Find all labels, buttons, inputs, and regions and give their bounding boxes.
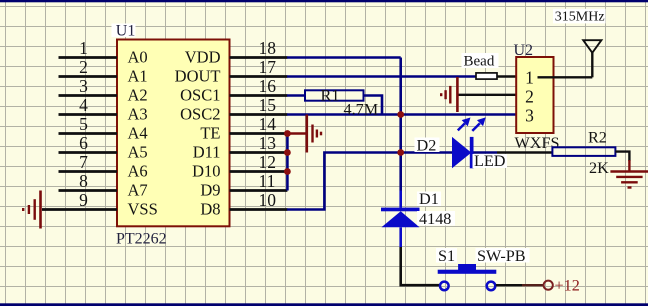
- 4148 label background: [417, 211, 455, 226]
- wire row 16 to R1: [287, 94, 305, 97]
- antenna triangle: [583, 40, 601, 53]
- svg-text:2: 2: [79, 57, 88, 77]
- svg-text:R2: R2: [588, 128, 607, 146]
- svg-text:11: 11: [259, 171, 276, 191]
- U1 right pin 16 wire: [230, 94, 288, 97]
- U1 right pin 13 wire: [230, 151, 288, 154]
- diode D1 cathode bar: [381, 208, 420, 212]
- U1 left pin 6 wire: [59, 151, 118, 154]
- top sheet border: [0, 0, 648, 2]
- svg-text:18: 18: [259, 38, 277, 58]
- diode D1 bottom pin: [399, 227, 402, 247]
- wire VDD row 18 to vertical bus: [287, 56, 401, 59]
- svg-text:10: 10: [259, 190, 277, 210]
- switch S1 button nub: [458, 264, 476, 270]
- ground G2 at TE net: [307, 115, 321, 153]
- svg-text:VSS: VSS: [128, 200, 158, 219]
- IC U2 body: [516, 57, 553, 133]
- +12 supply port circle: [544, 281, 553, 290]
- svg-text:D1: D1: [419, 190, 439, 208]
- svg-text:5: 5: [79, 114, 88, 134]
- svg-text:SW-PB: SW-PB: [477, 247, 526, 265]
- switch S1 right contact circle: [487, 282, 496, 291]
- U1 right pin 17 wire: [230, 75, 288, 78]
- diode D1 triangle: [382, 211, 420, 227]
- svg-text:13: 13: [259, 133, 277, 153]
- svg-text:4.7M: 4.7M: [344, 100, 379, 118]
- svg-text:PT2262: PT2262: [116, 231, 167, 248]
- svg-text:S1: S1: [438, 247, 455, 265]
- junction dot (287.4,152.5): [284, 149, 291, 156]
- bottom sheet border: [0, 303, 648, 306]
- svg-text:1: 1: [525, 68, 534, 88]
- switch S1 left contact circle: [440, 282, 449, 291]
- svg-text:7: 7: [79, 152, 88, 172]
- U1 designator white backing: [112, 24, 136, 38]
- U1 right pin 14 wire: [230, 132, 288, 135]
- svg-text:2K: 2K: [589, 159, 609, 177]
- antenna mast: [591, 52, 593, 77]
- svg-text:2: 2: [525, 87, 534, 107]
- svg-text:D8: D8: [200, 200, 220, 219]
- wire R1 right to row 15: [364, 96, 383, 115]
- svg-text:12: 12: [259, 152, 277, 172]
- diode D1 top pin: [399, 191, 402, 208]
- switch S1 bar: [438, 270, 497, 274]
- LED D2 triangle: [452, 137, 471, 168]
- svg-text:A0: A0: [128, 48, 148, 67]
- wire maroon stub to ground G2: [287, 132, 306, 134]
- svg-text:R1: R1: [321, 87, 340, 105]
- svg-text:A5: A5: [128, 143, 148, 162]
- svg-text:TE: TE: [200, 124, 220, 143]
- wire bead to U2 pin 1: [497, 75, 517, 78]
- SW-PB label background: [476, 248, 530, 263]
- junction dot (287.4,171.5): [284, 168, 291, 175]
- svg-text:15: 15: [259, 95, 277, 115]
- ground G3: [441, 77, 457, 112]
- svg-text:A3: A3: [128, 105, 148, 124]
- U1 left pin 9 wire: [42, 208, 117, 211]
- U1 right pin 18 wire: [230, 56, 288, 59]
- U1 left pin 5 wire: [59, 132, 118, 135]
- U1 left pin 4 wire: [59, 113, 118, 116]
- LED label background: [473, 154, 508, 168]
- svg-text:OSC2: OSC2: [180, 105, 220, 124]
- resistor R1 body: [305, 90, 364, 100]
- svg-text:16: 16: [259, 76, 277, 96]
- U1 left pin 1 wire: [59, 56, 118, 59]
- wire DOUT row 17 to Bead: [287, 75, 476, 78]
- D1 label background: [417, 192, 441, 207]
- wire row 152 junction to LED D2: [401, 151, 452, 154]
- svg-text:9: 9: [79, 190, 88, 210]
- U1 right pin 10 wire: [230, 208, 288, 211]
- svg-text:A1: A1: [128, 67, 148, 86]
- 315MHz label background: [553, 9, 606, 24]
- junction dot (287.4,133.5): [284, 130, 291, 137]
- svg-text:U1: U1: [116, 23, 136, 40]
- svg-text:D10: D10: [192, 162, 220, 181]
- wire LED cathode to R2: [474, 151, 498, 154]
- ferrite bead body: [476, 73, 497, 79]
- svg-text:A6: A6: [128, 162, 148, 181]
- wire row 15 OSC2 to U2 pin 3: [287, 113, 516, 116]
- svg-text:315MHz: 315MHz: [555, 10, 605, 25]
- ground G4: [610, 172, 648, 188]
- svg-text:6: 6: [79, 133, 88, 153]
- IC U1 PT2262 body: [117, 40, 230, 227]
- wire D8 row 10 L to row 13 net: [287, 153, 401, 210]
- svg-text:4148: 4148: [419, 210, 451, 228]
- svg-text:8: 8: [79, 171, 88, 191]
- resistor R2 body: [552, 147, 615, 156]
- S1 label background: [436, 248, 457, 263]
- svg-text:1: 1: [79, 38, 88, 58]
- svg-text:VDD: VDD: [185, 48, 221, 67]
- svg-text:14: 14: [259, 114, 277, 134]
- svg-text:+12: +12: [555, 276, 580, 294]
- svg-text:A4: A4: [128, 124, 148, 143]
- U1 left pin 8 wire: [59, 189, 118, 192]
- svg-text:4: 4: [79, 95, 88, 115]
- wire vertical bus x=400 down to D1: [399, 58, 402, 191]
- svg-text:OSC1: OSC1: [180, 86, 220, 105]
- LED arrow 2: [472, 118, 485, 131]
- svg-text:DOUT: DOUT: [175, 67, 221, 86]
- wire R2 to ground G4: [615, 152, 629, 161]
- ground G1 at U1 VSS pin 9: [23, 191, 40, 229]
- U1 right pin 11 wire: [230, 189, 288, 192]
- U1 left pin 2 wire: [59, 75, 118, 78]
- wire U2 pin1 to antenna: [538, 76, 593, 78]
- wire S1 to +12 port: [496, 284, 522, 286]
- svg-text:A7: A7: [128, 181, 148, 200]
- svg-text:A2: A2: [128, 86, 148, 105]
- svg-text:3: 3: [79, 76, 88, 96]
- LED D2 cathode bar: [470, 137, 474, 168]
- LED arrow 1: [458, 118, 470, 130]
- junction dot (400.7,114.5): [397, 111, 404, 118]
- U1 left pin 3 wire: [59, 94, 118, 97]
- U1 right pin 15 wire: [230, 113, 288, 116]
- svg-text:Bead: Bead: [464, 54, 495, 70]
- wire D1 to switch S1: [401, 247, 439, 285]
- wire U2 pin2 to ground G3: [457, 94, 517, 96]
- U1 left pin 7 wire: [59, 170, 118, 173]
- wire vertical tie TE/D11/D10/D9: [286, 134, 289, 191]
- svg-text:D2: D2: [417, 137, 437, 155]
- svg-text:D11: D11: [193, 143, 221, 162]
- U1 right pin 12 wire: [230, 170, 288, 173]
- svg-text:LED: LED: [474, 152, 506, 170]
- svg-text:D9: D9: [200, 181, 220, 200]
- Bead label background: [462, 53, 499, 68]
- svg-text:3: 3: [525, 106, 534, 126]
- D2 label background: [415, 138, 440, 153]
- svg-text:17: 17: [259, 57, 277, 77]
- junction dot (400.7,152.5): [397, 149, 404, 156]
